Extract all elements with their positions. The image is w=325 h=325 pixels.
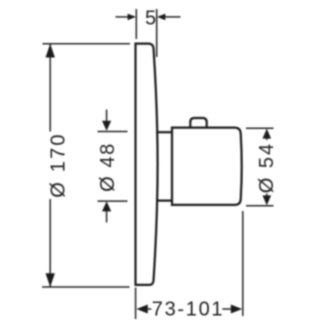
dim 5: right extension line (156, 9, 158, 57)
dim 5: left extension line (135, 9, 137, 39)
dim 48: lower tick (98, 200, 128, 202)
dim 54: lower arrow (down) (263, 195, 272, 205)
dim 48: upper tail (106, 110, 108, 123)
dim 5: left arrow (128, 14, 136, 21)
svg-text:Ø 54: Ø 54 (256, 142, 278, 193)
dim 170: bottom extension line (42, 286, 130, 288)
dim 54: upper tail (266, 138, 268, 140)
svg-text:Ø 170: Ø 170 (48, 132, 70, 197)
dim 48: upper arrow (down) (102, 121, 111, 131)
dim 54: upper tick (246, 127, 274, 129)
sleeve bottom edge (156, 200, 172, 202)
sleeve top edge (156, 131, 172, 133)
dim 73-101: left arrow (136, 305, 147, 314)
svg-text:Ø 48: Ø 48 (97, 142, 119, 192)
dim 54: lower tail (266, 194, 268, 197)
dim 48: lower tail (106, 211, 108, 223)
dim 170: dimension line upper segment (49, 44, 51, 131)
dim 73-101: right extension line (242, 211, 244, 316)
dim 73-101: left extension line (135, 288, 137, 320)
svg-text:73-101: 73-101 (152, 299, 224, 321)
svg-text:5: 5 (145, 7, 156, 29)
dim 54: upper arrow (up) (263, 129, 272, 139)
dim 5: right tail (164, 16, 181, 18)
handle top button (190, 118, 206, 127)
dim 48: lower arrow (up) (102, 201, 111, 211)
dim 73-101: right arrow (231, 305, 242, 314)
dim 73-101: left tail (145, 308, 151, 310)
dim 5: left tail (116, 16, 130, 18)
dim 54: lower tick (246, 205, 274, 207)
handle body (172, 128, 242, 205)
dim 170: dimension line lower segment (49, 199, 51, 287)
escutcheon plate profile (136, 44, 158, 285)
dim 170: top arrow (46, 44, 55, 58)
dim 73-101: right tail (222, 308, 232, 310)
dim 170: bottom arrow (46, 273, 55, 287)
dim 5: right arrow (157, 14, 165, 21)
dim 170: top extension line (43, 43, 131, 45)
dim 48: upper tick (98, 131, 128, 133)
